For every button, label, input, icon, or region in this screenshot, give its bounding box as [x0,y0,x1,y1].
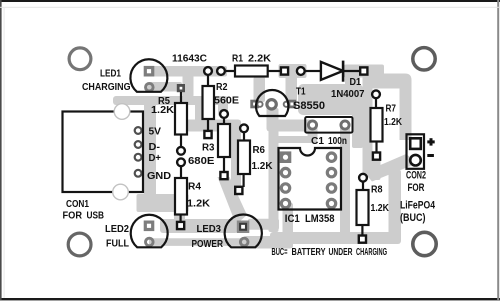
wire trace IC1 pin4 column down [283,203,294,248]
wire trace R7 bottom pad to R8 top pad [372,156,381,180]
svg-text:C1: C1 [311,136,324,147]
wire trace LED2 round pad to LED3 round pad [149,238,244,246]
svg-text:FOR: FOR [408,182,425,194]
svg-text:2.2K: 2.2K [248,54,272,65]
svg-text:100n: 100n [328,136,347,147]
svg-text:1.2K: 1.2K [384,117,403,128]
svg-text:1N4007: 1N4007 [331,89,365,100]
wire trace bottom band to R8 bottom pad [270,232,401,244]
CON2 plus square pad [410,138,421,149]
svg-text:11643C: 11643C [172,54,208,65]
svg-text:R3: R3 [202,143,215,154]
svg-text:D1: D1 [350,77,362,88]
svg-text:R1: R1 [232,54,243,65]
wire trace LED1 square pad to R1/R2 pads [147,66,227,77]
svg-text:D+: D+ [149,153,162,164]
resistor R8 body [362,181,364,190]
svg-text:R2: R2 [216,82,228,93]
wire trace vertical along IC1 left edge [269,108,279,232]
svg-text:LM358: LM358 [305,213,335,225]
wire trace CON1 top hole to R3 top (horizontal run) [113,96,228,105]
svg-text:S8550: S8550 [293,100,325,112]
wire trace LED3 square pad to IC1 left edge [248,219,279,230]
resistor R3 body [223,118,225,124]
mounting hole top-right [413,48,435,70]
resistor R8 bottom square pad [359,236,366,243]
wire trace LED1 round pad to R5 column [147,82,182,92]
resistor R4 body [180,166,182,178]
svg-text:LiFePO4: LiFePO4 [400,200,435,212]
IC1 pin 1 square pad [280,151,292,163]
IC1 pin pads right column 5-8 [327,153,335,161]
svg-text:CON2: CON2 [406,169,426,181]
svg-text:FOR: FOR [63,210,83,221]
wire trace to R3 top pad [218,97,228,116]
svg-text:5V: 5V [149,126,162,137]
svg-text:T1: T1 [296,87,306,98]
resistor R6 body [243,132,245,141]
LED1 outline [130,59,167,92]
PADS [68,48,436,256]
svg-text:CON1: CON1 [66,199,89,210]
resistor R1 left pad [217,67,225,75]
wire trace down to R4 bottom pad [174,200,185,224]
wire trace C1 left pad down [308,127,318,141]
svg-text:1.2K: 1.2K [252,161,274,172]
resistor R7 bottom square pad [373,153,380,160]
resistor R6 top pad [240,124,248,132]
resistor R7 body [375,98,377,108]
resistor R4 top pad [177,158,185,166]
label CON2 minus sign [427,154,434,157]
wire trace to IC1 pin1 region [275,136,317,143]
svg-text:POWER: POWER [192,239,224,250]
resistor R3 bottom square pad [220,172,227,179]
svg-text:LED1: LED1 [100,69,121,80]
svg-text:FULL: FULL [106,238,129,249]
capacitor C1 outline [305,117,352,133]
mounting hole top-left [69,48,91,70]
svg-text:D-: D- [149,142,161,153]
LED1 round pad [146,83,154,91]
svg-text:R8: R8 [371,184,383,195]
wire trace vertical R3/R6 gap down to R6 bottom pad [231,120,241,190]
wire trace Pi-pour D1 to R7/CON2 [363,74,412,178]
LED2 outline [131,215,168,248]
wire trace CON2 minus pad diagonal to R8 top pad [364,154,418,182]
svg-text:1.2K: 1.2K [187,198,211,209]
TRACES [113,64,418,249]
mounting hole bottom-right [413,232,436,255]
wire trace wide band below CON1 (GND) [137,194,189,212]
resistor R1 body [226,70,236,72]
diode D1 symbol [305,70,321,72]
resistor R2 bottom square pad [204,131,211,138]
resistor R5 body [180,92,182,103]
T1 left square pad [250,100,259,109]
diode D1 cathode square pad [360,67,367,74]
resistor R5 bottom pad [177,147,185,155]
svg-text:UNDER: UNDER [329,247,354,258]
svg-text:USB: USB [87,210,105,221]
svg-text:GND: GND [147,171,171,182]
resistor R2 top pad [204,67,212,75]
svg-text:CHARGING: CHARGING [82,82,131,93]
resistor R6 bottom square pad [235,187,242,194]
svg-text:1.2K: 1.2K [371,203,390,214]
svg-text:LED2: LED2 [105,224,129,235]
LED2 round pad [146,238,154,246]
diode D1 anode pad [297,67,305,75]
wire trace pour around 1N4007 label [298,84,363,115]
resistor R2 body [207,75,209,86]
C1 pads [308,121,316,129]
wire trace down to T1 right pad [286,64,298,102]
T1 right square pad [288,100,297,109]
wire trace LED2 pad to R4 pad to LED3 pad [160,219,238,233]
wire trace vertical behind CON1 labels [144,100,156,196]
resistor R3 top pad [220,110,228,118]
wire trace LED3 round pad to IC1 pin4 [243,236,293,249]
svg-text:BUC=: BUC= [272,247,288,258]
T1 pin pads [257,102,262,107]
resistor R4 bottom square pad [177,222,184,229]
R5 top square pad [177,84,185,92]
op-amp IC1 outline with notch [279,148,342,210]
wire trace R1 right pad / D1 anode pad blob [279,64,307,78]
svg-text:BATTERY: BATTERY [292,247,326,258]
CON1 bottom drill hole [113,184,129,200]
svg-text:IC1: IC1 [285,213,300,225]
wire trace drop from LED1 band to horizontal run [183,66,194,97]
transistor T1 outline [256,90,288,116]
resistor R7 top pad [372,90,380,98]
wire trace D1 cathode pad band [344,65,384,78]
wire trace T1 centre to C1 left pad [267,120,314,132]
CON1 pin pads 5V / D- / D+ / GND [135,127,142,134]
CON2 minus round pad [410,155,421,166]
svg-text:R7: R7 [386,104,397,115]
wire trace drop to R2 bottom pad [195,96,206,131]
resistor R8 top pad [359,174,367,182]
resistor R1 right square pad [281,67,288,74]
wire trace R3 bottom pad to LED3 square pad [218,177,248,225]
wire trace horizontal to R3/R6 gap [186,120,241,132]
LED2 square pad [144,221,155,232]
mounting hole bottom-left [68,233,91,256]
svg-text:CHARGING: CHARGING [356,247,387,258]
svg-text:R4: R4 [188,181,201,192]
LED3 outline [225,215,262,248]
LED3 square pad [237,221,250,234]
connector CON1 body [63,112,144,193]
IC1 pin pads left column 2-4 [281,168,289,176]
svg-text:R6: R6 [253,145,266,156]
svg-text:LED3: LED3 [197,224,222,235]
wire trace T1 centre pad down [267,107,278,123]
CON1 top drill hole [114,104,130,120]
label CON2 plus sign [427,140,434,143]
wire trace T1 left pad up to R1 [254,77,266,102]
svg-text:(BUC): (BUC) [400,212,426,224]
connector CON2 body [407,134,425,169]
wire trace CON2 branch down right of R8 [389,170,402,238]
LED1 square pad [144,66,155,77]
svg-text:1.2K: 1.2K [151,105,175,116]
wire trace C1 right pad down along IC1 right edge [340,124,350,238]
LED3 round pad [240,238,248,246]
svg-text:560E: 560E [214,95,239,106]
svg-text:680E: 680E [188,156,215,167]
